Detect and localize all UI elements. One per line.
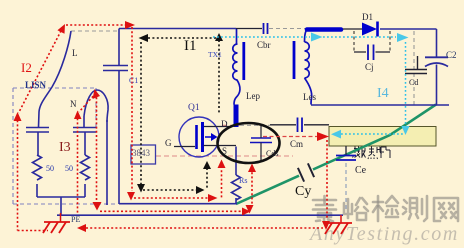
svg-text:C2: C2 [446,50,457,60]
svg-text:Cy: Cy [295,184,311,199]
svg-text:Cj: Cj [365,62,374,72]
svg-text:D1: D1 [362,12,373,22]
svg-text:N: N [70,99,77,109]
svg-text:S: S [222,146,227,156]
svg-text:Ce: Ce [355,165,367,176]
svg-text:Cd: Cd [409,78,418,87]
svg-text:Cbr: Cbr [257,40,271,50]
svg-text:I4: I4 [377,86,389,101]
svg-text:LISN: LISN [25,80,47,90]
svg-text:50: 50 [46,164,54,173]
svg-text:I3: I3 [59,140,71,155]
svg-text:Q1: Q1 [188,103,200,113]
svg-text:Cm: Cm [290,139,303,149]
svg-text:Cds: Cds [266,149,278,158]
svg-text:D: D [221,119,228,129]
svg-text:Lep: Lep [246,91,260,101]
svg-text:I2: I2 [21,60,32,75]
svg-text:Les: Les [303,92,316,102]
svg-text:50: 50 [65,164,73,173]
svg-text:G: G [165,138,172,148]
svg-text:TX1: TX1 [208,50,222,59]
svg-text:C1: C1 [129,76,138,85]
svg-text:Rs: Rs [239,176,247,185]
svg-text:I1: I1 [184,38,197,54]
svg-text:PE: PE [71,215,80,224]
svg-text:L: L [72,48,78,58]
svg-text:3843: 3843 [132,148,151,158]
